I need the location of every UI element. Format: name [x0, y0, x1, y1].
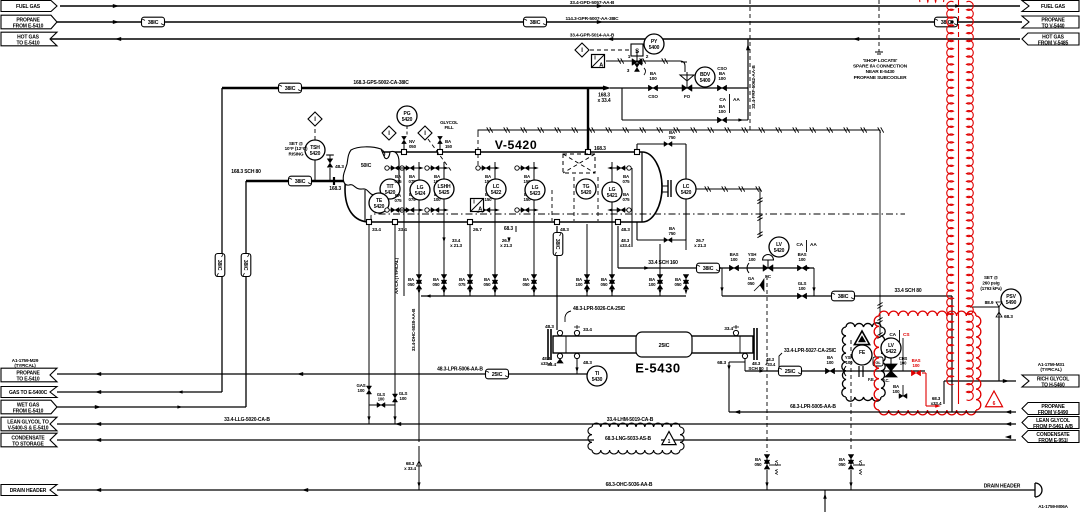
- arrow fuel gas flow: [113, 4, 119, 8]
- vessel V-5420 left head: [345, 151, 380, 222]
- offpage connector drain: [1035, 483, 1042, 497]
- svg-text:050: 050: [409, 144, 417, 149]
- valve BA100 CSO upstream: [648, 85, 657, 91]
- vessel V-5420 shell: [372, 152, 642, 222]
- instrument LG-5423: [525, 180, 545, 200]
- valve BA-750 bridle bottom: [664, 238, 672, 243]
- wire rich glycol to flag: [944, 380, 1016, 382]
- svg-text:5420: 5420: [774, 248, 785, 254]
- arrow condensate: [95, 438, 101, 442]
- svg-text:PROPANE: PROPANE: [1041, 17, 1065, 23]
- svg-text:TO V-5440: TO V-5440: [1042, 24, 1065, 30]
- svg-text:100: 100: [400, 396, 408, 401]
- instrument LG-5421: [602, 182, 622, 202]
- svg-text:LEAN GLYCOL: LEAN GLYCOL: [1036, 418, 1070, 424]
- svg-text:50IC: 50IC: [361, 163, 372, 169]
- svg-text:RICH GLYCOL: RICH GLYCOL: [1037, 376, 1069, 382]
- svg-text:x 21.3: x 21.3: [500, 243, 512, 248]
- instrument LV-5422: [881, 338, 901, 358]
- wire red glycol route: [922, 372, 926, 374]
- valve CSO BA100 downstream: [717, 85, 726, 91]
- valve GLS small: [873, 357, 883, 366]
- valve BA100 on bypass: [717, 117, 726, 123]
- flag PROPANE TO V-5440: [1022, 16, 1079, 28]
- svg-text:5425: 5425: [439, 190, 450, 196]
- signal dashed vertical shop locate: [878, 0, 880, 52]
- svg-text:FROM E-5410: FROM E-5410: [13, 409, 44, 415]
- nozzle bridle top: [635, 150, 640, 155]
- valve vent with T handle: [329, 168, 331, 181]
- svg-text:33.4-LLG-5020-CA-B: 33.4-LLG-5020-CA-B: [224, 417, 270, 423]
- flag PROPANE FROM V-5490: [1022, 403, 1079, 415]
- svg-text:168.3 SCH 80: 168.3 SCH 80: [231, 169, 261, 175]
- label 68.3-LNG-5033-AS-B: [594, 432, 661, 442]
- svg-text:LEAN GLYCOL TO: LEAN GLYCOL TO: [7, 419, 49, 425]
- signal dashed drop x851: [850, 340, 852, 452]
- flag PROPANE TO E-5410: [1, 368, 57, 382]
- spec break pill 38IC c: [935, 17, 958, 27]
- svg-text:100: 100: [649, 76, 657, 81]
- svg-text:CA: CA: [796, 242, 803, 248]
- vent group TIT bottom: [387, 209, 404, 211]
- cloud black FE revision: [846, 323, 881, 327]
- jacket dash-dot boundary: [371, 214, 905, 222]
- svg-text:100: 100: [358, 388, 366, 393]
- spec break pill 38IC a: [142, 17, 165, 27]
- instrument LG-5424: [410, 180, 430, 200]
- wire gls cross: [369, 404, 395, 406]
- valve BAS-100 letdown b: [797, 265, 806, 271]
- wire condensate line: [57, 439, 1016, 441]
- instrument TE-5420: [369, 193, 389, 213]
- wire propane from V-5490: [729, 411, 1016, 413]
- nozzle vessel bottom 33.4 at 369: [367, 220, 372, 225]
- svg-text:'SHOP LOCATE': 'SHOP LOCATE': [863, 58, 898, 64]
- exchanger internal lines: [565, 336, 567, 353]
- instrument PY-5400: [644, 34, 664, 54]
- svg-text:F.E.: F.E.: [868, 377, 875, 382]
- svg-text:33.4-GPD-5057-AA-B: 33.4-GPD-5057-AA-B: [570, 0, 615, 6]
- flag HOT GAS TO E-5410: [1, 32, 57, 46]
- svg-text:100: 100: [827, 360, 835, 365]
- reducer 168.3x33.4: [603, 86, 611, 91]
- nozzle E-5430 bottom right: [742, 353, 747, 358]
- standpipe LSHH-5425: [443, 162, 445, 296]
- wire psv outlet drop: [998, 307, 1000, 381]
- wire DHC drain riser: [418, 296, 420, 442]
- svg-text:5430: 5430: [592, 377, 603, 383]
- nozzle E-5430 bottom left b: [574, 353, 579, 358]
- solenoid S box: [631, 44, 643, 56]
- svg-text:114.3-GPR-5007-AA-38IC: 114.3-GPR-5007-AA-38IC: [566, 16, 620, 22]
- wire wet gas riser: [245, 181, 247, 407]
- svg-text:100: 100: [913, 363, 921, 368]
- wire wet gas from E-5410: [57, 406, 246, 408]
- wire bridle column: [685, 144, 687, 240]
- valve 3-way PV: [632, 59, 642, 66]
- svg-text:(1793 kPa): (1793 kPa): [980, 286, 1002, 291]
- standpipe LC-5422: [494, 162, 496, 296]
- valve BA-050 drop x851: [848, 455, 854, 464]
- svg-text:RISING: RISING: [289, 151, 305, 156]
- svg-text:050: 050: [601, 282, 609, 287]
- svg-text:x33.4: x33.4: [620, 243, 631, 248]
- signal dashed diag to LSHH: [428, 139, 452, 172]
- svg-text:48.3-LPR-5026-CA-25IC: 48.3-LPR-5026-CA-25IC: [573, 306, 626, 312]
- svg-text:x 21.3: x 21.3: [450, 243, 462, 248]
- spec break pill 25IC right: [779, 366, 802, 376]
- svg-text:FILL: FILL: [444, 125, 453, 130]
- red triangle note 6: [985, 391, 1002, 407]
- svg-text:050: 050: [484, 282, 492, 287]
- valve drain BA-050 at 444: [441, 275, 447, 284]
- svg-text:DRAIN HEADER: DRAIN HEADER: [984, 484, 1021, 490]
- svg-text:33.4-GPR-5014-AA-B: 33.4-GPR-5014-AA-B: [570, 33, 615, 39]
- wire letdown lower line: [722, 295, 952, 297]
- svg-text:GL: GL: [875, 360, 881, 365]
- wire psv inlet: [970, 306, 999, 308]
- svg-text:AA CA (TYPICAL): AA CA (TYPICAL): [394, 257, 399, 294]
- diamond interlock TSH: [308, 112, 322, 126]
- svg-text:100: 100: [799, 286, 807, 291]
- wire letdown bypass right: [813, 268, 815, 296]
- instrument TG-5420: [576, 179, 596, 199]
- spec break pill 38IC v: [553, 233, 563, 256]
- svg-text:WET GAS: WET GAS: [17, 402, 40, 408]
- valve NV-050 vent: [402, 150, 407, 155]
- wire bypass drop left: [621, 88, 623, 120]
- svg-text:5420: 5420: [310, 151, 321, 157]
- svg-text:SET @: SET @: [984, 275, 999, 280]
- svg-text:33.4: 33.4: [724, 326, 733, 332]
- svg-text:V-5400-S & E-5410: V-5400-S & E-5410: [8, 426, 49, 432]
- valve GLS-100 a: [392, 394, 397, 402]
- valve drain BA-075 at 470: [469, 250, 471, 296]
- vent group TIT top: [387, 167, 404, 169]
- flag PROPANE FROM E-5410: [1, 15, 57, 29]
- svg-text:168.3: 168.3: [329, 186, 341, 192]
- svg-text:050: 050: [523, 282, 531, 287]
- signal line to valve: [606, 60, 680, 62]
- svg-text:FROM E-5410: FROM E-5410: [13, 24, 44, 30]
- signal dashed drop x767: [766, 276, 768, 452]
- flag CONDENSATE TO STORAGE: [1, 433, 57, 447]
- svg-text:100: 100: [893, 389, 901, 394]
- svg-text:1: 1: [668, 439, 671, 445]
- node tee at vessel vapor outlet: [587, 88, 589, 152]
- svg-text:075: 075: [395, 179, 403, 184]
- wire bridle top: [636, 144, 638, 150]
- instrument PG-5420: [397, 106, 417, 126]
- standpipe LG-5421: [611, 162, 613, 296]
- nozzle E-5430 bottom left a: [557, 353, 562, 358]
- wire 33.4 branch to BDV: [610, 87, 748, 89]
- svg-text:F.C.: F.C.: [883, 378, 890, 383]
- signal dashed x478: [477, 133, 479, 168]
- svg-text:050: 050: [408, 282, 416, 287]
- svg-text:FROM V-5490: FROM V-5490: [1038, 410, 1069, 416]
- svg-text:CA: CA: [889, 332, 896, 338]
- svg-text:x 21.3: x 21.3: [694, 243, 706, 248]
- svg-text:100: 100: [576, 282, 584, 287]
- valve LV-5420 control: [763, 265, 773, 272]
- valve BAS-100 letdown a: [729, 265, 738, 271]
- svg-text:750: 750: [669, 231, 677, 236]
- svg-text:CA: CA: [719, 97, 726, 103]
- exchanger E-5430 right flange: [753, 328, 755, 360]
- svg-text:33.4 SCH 160: 33.4 SCH 160: [648, 260, 678, 266]
- svg-text:TO H-5460: TO H-5460: [1041, 383, 1065, 389]
- svg-text:38IC: 38IC: [530, 20, 541, 26]
- svg-text:E-5430: E-5430: [635, 361, 681, 376]
- svg-text:750: 750: [669, 135, 677, 140]
- nozzle vessel bottom 48.3 at 618: [616, 220, 621, 225]
- wire LPR-5027 line: [745, 370, 925, 372]
- instrument TIT-5420: [380, 179, 400, 199]
- svg-text:075: 075: [623, 197, 631, 202]
- svg-text:68.3-LPR-5005-AA-B: 68.3-LPR-5005-AA-B: [790, 404, 836, 410]
- svg-text:A: A: [478, 207, 482, 213]
- svg-text:33.4-FRF-5062-AA-B: 33.4-FRF-5062-AA-B: [751, 65, 757, 109]
- wire 68.3 shell drain: [728, 362, 730, 412]
- valve GA-050 drain angle: [760, 279, 764, 291]
- warning triangle FE: [854, 331, 869, 345]
- spec break pill 38IC on GPS line: [279, 83, 302, 93]
- svg-text:FROM P-5461 A/B: FROM P-5461 A/B: [1033, 424, 1073, 430]
- wire vessel drop 587: [586, 224, 588, 250]
- valve BA-050 drop x767: [764, 455, 770, 464]
- svg-text:100: 100: [749, 257, 757, 262]
- valve BA-750 bridle top: [664, 142, 672, 147]
- flag DRAIN HEADER: [1, 485, 57, 496]
- svg-text:FUEL GAS: FUEL GAS: [1041, 4, 1066, 10]
- wire bridle drop 686: [685, 240, 687, 250]
- flag FUEL GAS right: [1022, 1, 1079, 12]
- valve drain BA-050 at 534: [531, 275, 537, 284]
- svg-text:FROM E-951I: FROM E-951I: [1038, 438, 1068, 444]
- svg-text:PROPANE SUBCOOLER: PROPANE SUBCOOLER: [854, 75, 907, 81]
- svg-text:(TYPICAL): (TYPICAL): [1040, 367, 1062, 372]
- arrow hot gas flow: [115, 37, 121, 41]
- svg-text:100: 100: [731, 257, 739, 262]
- nozzle vessel bottom 48.3 at 557: [555, 220, 560, 225]
- svg-text:5400: 5400: [649, 45, 660, 51]
- wire TIT standpipe: [403, 168, 405, 296]
- svg-text:5424: 5424: [415, 191, 426, 197]
- svg-text:V-5420: V-5420: [495, 138, 538, 152]
- svg-text:48.3: 48.3: [621, 227, 630, 233]
- signal LC-5420 to LV-5420: [696, 188, 760, 190]
- svg-text:38IC: 38IC: [838, 294, 849, 300]
- spec break pill 38IC lower: [832, 291, 855, 301]
- instrument TSH-5420 tap: [314, 160, 316, 181]
- converter I/A: [592, 55, 605, 68]
- spec break pill 38IC vertical left b: [241, 254, 251, 277]
- converter I/A vessel: [471, 199, 484, 212]
- svg-text:AA: AA: [733, 97, 740, 103]
- svg-text:33.4: 33.4: [547, 362, 556, 368]
- arrow propane to E-5410: [95, 372, 101, 376]
- svg-text:x 33.4: x 33.4: [597, 98, 610, 104]
- standpipe LG-5424: [418, 162, 420, 296]
- wire 48.3-LPR-5006 line: [57, 373, 587, 375]
- instrument LC-5420: [676, 179, 696, 199]
- nozzle E-5430 top right: [733, 330, 738, 335]
- valve GAS-100: [366, 386, 371, 394]
- diamond interlock a: [382, 126, 396, 140]
- wire LPR-5026 drop: [556, 226, 558, 330]
- svg-text:5421: 5421: [607, 193, 618, 199]
- exchanger E-5430 shell: [553, 336, 753, 353]
- wire BDV outlet corner: [681, 62, 687, 80]
- svg-text:48.3-LPR-5006-AA-B: 48.3-LPR-5006-AA-B: [437, 367, 483, 373]
- svg-text:075: 075: [395, 198, 403, 203]
- instrument TSH-5420: [305, 140, 325, 160]
- svg-text:38IC: 38IC: [216, 260, 222, 271]
- red coil left: [947, 1, 954, 384]
- instrument LC-5422: [486, 179, 506, 199]
- wire lean glycol line: [57, 423, 1016, 425]
- valve BA-100 glycol: [825, 368, 834, 374]
- svg-text:AA: AA: [858, 469, 863, 475]
- signal TSH to diamond: [314, 126, 316, 140]
- signal LSLL to LV-5422 horizontal: [478, 129, 880, 131]
- svg-text:CONDENSATE: CONDENSATE: [11, 435, 45, 441]
- valve BAS-100 red: [911, 370, 920, 376]
- svg-text:68.3: 68.3: [1004, 314, 1013, 320]
- standpipe LG-5423: [533, 162, 535, 296]
- flag FUEL GAS left: [1, 1, 57, 12]
- flag WET GAS FROM E-5410: [1, 400, 57, 414]
- svg-text:TO E-5410: TO E-5410: [16, 377, 39, 383]
- svg-text:5490: 5490: [1006, 300, 1017, 306]
- vortex breaker dashed box: [563, 154, 595, 173]
- svg-text:075: 075: [459, 282, 467, 287]
- wire hot gas header: [51, 38, 1020, 40]
- arrow letdown flow: [644, 266, 650, 269]
- spec break pill 38IC inlet: [289, 176, 312, 186]
- svg-text:AA: AA: [810, 242, 817, 248]
- instrument TI-5430: [587, 366, 607, 386]
- svg-text:33.4-LPR-5027-CA-25IC: 33.4-LPR-5027-CA-25IC: [784, 348, 837, 354]
- svg-text:050: 050: [675, 282, 683, 287]
- valve LV-5422 body: [890, 358, 892, 364]
- svg-text:PROPANE: PROPANE: [16, 370, 40, 376]
- svg-text:DRAIN HEADER: DRAIN HEADER: [10, 488, 47, 494]
- svg-text:PROPANE: PROPANE: [16, 17, 40, 23]
- svg-text:168.3-GPS-5002-CA-38IC: 168.3-GPS-5002-CA-38IC: [353, 80, 409, 86]
- wire gas branch: [368, 374, 370, 424]
- svg-text:SPARE I/A CONNECTION: SPARE I/A CONNECTION: [853, 64, 908, 70]
- svg-text:050: 050: [748, 281, 756, 286]
- wire FRF riser: [747, 39, 749, 120]
- signal dashed diamond to S: [590, 49, 631, 51]
- valve drain BA-050 at 495: [492, 275, 498, 284]
- svg-text:CSO: CSO: [648, 94, 658, 99]
- svg-text:075: 075: [623, 179, 631, 184]
- svg-text:33.4: 33.4: [372, 227, 381, 233]
- red coil top stub: [920, 0, 944, 2]
- wire vessel outlet to LV-5420 line: [617, 226, 619, 268]
- valve drain BA-050 at 419: [416, 275, 422, 284]
- svg-text:A: A: [599, 63, 603, 69]
- nozzle vessel bottom 26.7 at 470: [468, 220, 473, 225]
- svg-text:100: 100: [718, 109, 726, 114]
- exchanger E-5430 left flange: [547, 329, 549, 360]
- triangle note LNG: [662, 432, 676, 445]
- valve FO blowdown with BDV actuator: [682, 85, 692, 92]
- svg-text:5420: 5420: [581, 190, 592, 196]
- svg-text:100: 100: [799, 257, 807, 262]
- valve drain BA-050 at 612: [609, 275, 615, 284]
- svg-text:68.3-LNG-5033-AS-B: 68.3-LNG-5033-AS-B: [605, 436, 651, 442]
- svg-text:5423: 5423: [530, 191, 541, 197]
- svg-text:TO STORAGE: TO STORAGE: [12, 442, 44, 448]
- inline YSH-100 glycol: [844, 366, 846, 376]
- svg-text:(TYPICAL): (TYPICAL): [14, 363, 36, 368]
- svg-text:68.3: 68.3: [504, 226, 514, 232]
- svg-text:x33.4: x33.4: [931, 401, 942, 406]
- svg-text:050: 050: [839, 462, 847, 467]
- arrow propane flow: [113, 20, 119, 24]
- flag LEAN GLYCOL FROM P-5461: [1022, 417, 1079, 429]
- wire GPS vertical to gas export: [221, 88, 223, 392]
- wire DHC lower: [418, 446, 420, 490]
- red revision cloud LV area: [879, 311, 976, 316]
- valve BA-150 glycol fill: [438, 150, 443, 155]
- svg-text:A1-1759-M06A: A1-1759-M06A: [1038, 504, 1068, 509]
- wire fuel gas header: [60, 5, 1020, 7]
- svg-text:26.7: 26.7: [473, 227, 482, 233]
- instrument LSHH-5425: [434, 179, 454, 199]
- svg-text:33.4-LHM-5019-CA-B: 33.4-LHM-5019-CA-B: [607, 417, 654, 423]
- svg-text:33.4 SCH 80: 33.4 SCH 80: [895, 288, 922, 294]
- svg-text:FO: FO: [684, 94, 691, 99]
- wire vessel drop 470: [469, 224, 471, 250]
- nozzle E-5430 top left b: [574, 330, 579, 335]
- svg-text:AA: AA: [774, 469, 779, 475]
- wire oily drain up: [824, 490, 826, 512]
- svg-text:38IC: 38IC: [554, 239, 560, 250]
- svg-text:48.3: 48.3: [583, 360, 592, 366]
- svg-text:x 33.4: x 33.4: [404, 466, 416, 471]
- wire propane riser black: [951, 296, 953, 412]
- exchanger 25IC insulation box: [636, 332, 692, 357]
- svg-text:68.3: 68.3: [717, 360, 726, 366]
- svg-text:HOT GAS: HOT GAS: [1042, 34, 1065, 40]
- svg-text:38IC: 38IC: [295, 179, 306, 185]
- diamond interlock I: [575, 43, 589, 57]
- wire bridle bottom: [636, 222, 638, 240]
- arrow FRF up: [746, 44, 750, 50]
- wire vessel drop 395: [394, 224, 396, 345]
- svg-text:33.4: 33.4: [583, 327, 592, 333]
- svg-text:NEAR E-5430: NEAR E-5430: [866, 69, 895, 75]
- arrow LPR-5005: [734, 410, 740, 414]
- valve BA-100 below LV: [902, 385, 904, 396]
- flag HOT GAS FROM V-5485: [1022, 33, 1079, 45]
- svg-text:FE: FE: [859, 350, 866, 356]
- flag RICH GLYCOL TO H-5460: [1022, 375, 1079, 387]
- svg-text:FC: FC: [765, 274, 772, 279]
- instrument PSV-5490: [1001, 289, 1021, 309]
- orifice FE: [858, 366, 860, 377]
- svg-text:FROM V-5485: FROM V-5485: [1038, 41, 1069, 47]
- svg-text:HOT GAS: HOT GAS: [17, 34, 40, 40]
- svg-text:25IC: 25IC: [785, 369, 796, 375]
- red coil right: [967, 1, 974, 400]
- svg-text:100: 100: [846, 360, 854, 365]
